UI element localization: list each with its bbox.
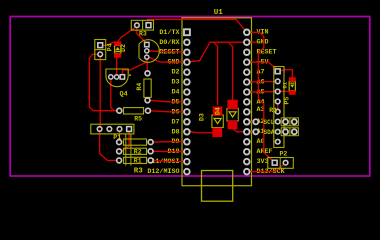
- wire P4 down to P1: [99, 54, 101, 129]
- pad U1 left pin 9: [184, 109, 190, 115]
- svg-text:R3: R3: [134, 168, 144, 176]
- wire Rmid to D10: [151, 150, 187, 152]
- svg-text:R2: R2: [134, 148, 142, 155]
- pad U1 right pin 21: [244, 119, 250, 125]
- wire P5 pad4 to pad5: [277, 102, 279, 112]
- wire trimpot to R4: [146, 58, 148, 74]
- svg-text:D4: D4: [171, 89, 179, 97]
- wire A5 to P5: [247, 91, 278, 93]
- wire GND net: [147, 42, 247, 62]
- wire +5V to P5: [247, 62, 278, 70]
- svg-text:SCL: SCL: [264, 119, 275, 126]
- diode D4: [227, 109, 238, 121]
- svg-text:D3: D3: [199, 113, 206, 121]
- pad U1 left pin 11: [184, 129, 190, 135]
- resistor R2 row: [124, 139, 147, 145]
- resistor R1 row: [124, 157, 147, 163]
- jumper SCL row: [281, 118, 298, 126]
- wire Q4 to R5: [111, 77, 120, 111]
- connector P2: [268, 158, 294, 169]
- pad U1 right pin 29: [244, 39, 250, 45]
- connector P3: [131, 20, 153, 30]
- pad U1 left pin 2: [184, 39, 190, 45]
- diode D1: [289, 81, 295, 91]
- resistor R5: [124, 108, 144, 114]
- pad U1 right pin 25: [244, 79, 250, 85]
- pad U1 right pin 18: [244, 149, 250, 155]
- wire P3 to D2: [118, 26, 137, 42]
- svg-text:D2: D2: [171, 69, 179, 77]
- wire P3 to trimpot: [137, 26, 147, 44]
- trimpot R3 body: [139, 40, 159, 63]
- svg-text:P2: P2: [280, 151, 288, 158]
- pad U1 left pin 10: [184, 119, 190, 125]
- svg-text:SDA: SDA: [264, 129, 275, 136]
- pad U1 right pin 28: [244, 49, 250, 55]
- wire GND to D3: [214, 42, 218, 105]
- wire P1 pad3 to R2: [119, 129, 121, 142]
- pad U1 right pin 19: [244, 139, 250, 145]
- svg-text:D2: D2: [120, 44, 127, 52]
- pad U1 left pin 15: [184, 169, 190, 175]
- pad U1 left pin 5: [184, 69, 190, 75]
- wire R5 to D6: [148, 111, 187, 112]
- svg-text:R5: R5: [134, 116, 142, 123]
- pad U1 left pin 13: [184, 149, 190, 155]
- wire P4 to D2: [100, 42, 117, 45]
- wire P4 to R5: [89, 54, 119, 110]
- wire GND stub: [247, 41, 257, 43]
- svg-text:U1: U1: [214, 9, 224, 17]
- svg-text:D12/MISO: D12/MISO: [147, 168, 179, 176]
- wire P1 pad4 to Rmid: [119, 129, 129, 151]
- wire D4 to A1: [233, 126, 247, 132]
- pad U1 right pin 16: [244, 169, 250, 175]
- wire VIN net: [148, 19, 247, 32]
- svg-text:R1: R1: [269, 107, 277, 114]
- pad U1 right pin 22: [244, 109, 250, 115]
- wire P5 to D1: [278, 70, 293, 78]
- pad U1 left pin 3: [184, 49, 190, 55]
- svg-text:D0/RX: D0/RX: [159, 39, 180, 47]
- svg-text:RESET: RESET: [159, 49, 179, 57]
- pad U1 left pin 8: [184, 99, 190, 105]
- svg-text:D8: D8: [171, 128, 179, 136]
- jumper SDA row: [281, 128, 298, 136]
- wire D2 to Q4: [117, 56, 118, 77]
- pad U1 left pin 14: [184, 159, 190, 165]
- wire VIN to P2: [247, 32, 275, 162]
- svg-text:D4: D4: [215, 107, 222, 115]
- svg-text:AREF: AREF: [257, 148, 273, 156]
- pin 1 pad U1: [184, 29, 190, 35]
- svg-text:D1/TX: D1/TX: [159, 29, 180, 37]
- svg-text:R4: R4: [136, 83, 143, 91]
- pad U1 right pin 24: [244, 89, 250, 95]
- pad U1 left pin 7: [184, 89, 190, 95]
- wire A1 stub: [247, 131, 256, 133]
- wire trimpot to Q4: [122, 58, 146, 77]
- svg-text:D3: D3: [171, 79, 179, 87]
- svg-text:D7: D7: [171, 118, 179, 126]
- USB connector outline: [202, 171, 233, 202]
- diode D2: [115, 45, 121, 53]
- diode D3: [212, 115, 223, 128]
- svg-text:RESET: RESET: [257, 49, 277, 57]
- svg-text:D1: D1: [281, 81, 288, 88]
- wire GND to D4: [228, 42, 232, 100]
- svg-text:GND: GND: [257, 39, 269, 47]
- connector P4: [95, 40, 106, 60]
- pad U1 right pin 26: [244, 69, 250, 75]
- silk lines near resistors: [125, 134, 127, 166]
- pad U1 left pin 4: [184, 59, 190, 65]
- svg-text:P4: P4: [106, 43, 113, 51]
- pad U1 left pin 12: [184, 139, 190, 145]
- wire trimpot to RESET: [147, 51, 187, 52]
- transistor Q4: [106, 69, 128, 87]
- pad U1 right pin 27: [244, 59, 250, 65]
- connector P1: [91, 124, 134, 134]
- svg-text:R1: R1: [134, 158, 142, 165]
- wire R2 to D9: [151, 141, 187, 143]
- resistor Rm row: [124, 148, 147, 154]
- pad U1 left pin 6: [184, 79, 190, 85]
- op-amp U1: [182, 18, 252, 186]
- svg-text:3V3: 3V3: [257, 158, 269, 166]
- wire R4 to D5: [148, 100, 187, 102]
- dot marker: [129, 74, 131, 76]
- pad U1 right pin 17: [244, 159, 250, 165]
- wire A6 to P5: [247, 81, 278, 84]
- pad U1 right pin 20: [244, 129, 250, 135]
- svg-text:Q4: Q4: [120, 90, 128, 98]
- wire D3 to D8: [187, 132, 217, 133]
- wire D13 to P2: [247, 163, 286, 172]
- border frame: [10, 17, 370, 177]
- svg-text:P5: P5: [283, 97, 290, 105]
- svg-text:R3: R3: [139, 31, 147, 38]
- wire R1 to D11: [151, 160, 187, 161]
- wire D1 to P5: [280, 91, 292, 93]
- connector P5: [274, 67, 284, 148]
- wire P1 to R1: [100, 129, 120, 160]
- pad U1 right pin 23: [244, 99, 250, 105]
- pad U1 right pin 30: [244, 30, 250, 36]
- wire A2 stub: [247, 121, 256, 123]
- resistor R4: [144, 79, 151, 97]
